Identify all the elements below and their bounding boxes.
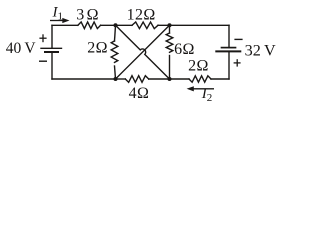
resistor R 4ohm zigzag — [125, 76, 148, 83]
battery V2 minus sign — [234, 38, 242, 40]
wire vertical 6ohm branch lower stub — [169, 56, 171, 80]
wire bottom-left — [52, 78, 116, 80]
wire node C to 4ohm — [116, 78, 126, 80]
battery V1 40V long plate (positive, top) — [41, 47, 62, 49]
svg-text:12Ω: 12Ω — [127, 6, 156, 23]
battery V2 32V short plate (negative, top) — [222, 47, 236, 49]
wire right branch lower — [228, 51, 230, 79]
resistor R 2ohm vertical zigzag — [111, 41, 118, 62]
wire vertical 6ohm branch upper stub — [169, 25, 171, 33]
resistor R 2ohm bottom zigzag — [189, 76, 211, 82]
wire diagonal node A to node D with hop over B-C — [116, 25, 170, 79]
wire top-left segment — [52, 24, 78, 26]
wire node D to 2ohm — [170, 78, 190, 80]
battery V2 plus sign — [234, 59, 241, 66]
battery V1 plus sign — [39, 34, 46, 42]
svg-text:I1: I1 — [52, 4, 64, 22]
wire vertical 2ohm branch upper stub — [115, 25, 116, 41]
svg-text:6Ω: 6Ω — [174, 41, 195, 58]
wire left branch upper — [51, 25, 53, 48]
wire node D to 4ohm — [149, 78, 170, 80]
svg-text:40 V: 40 V — [6, 40, 37, 57]
node A junction dot — [114, 23, 118, 27]
current I1 arrow — [50, 18, 70, 23]
wire node B to top-right corner — [158, 24, 229, 26]
svg-text:4Ω: 4Ω — [129, 85, 150, 102]
resistor R 6ohm vertical zigzag — [166, 33, 173, 52]
svg-text:3Ω: 3Ω — [76, 6, 99, 23]
wire vertical 2ohm branch lower stub — [115, 66, 116, 79]
resistor R 12ohm zigzag — [132, 22, 158, 29]
node D junction dot — [168, 77, 172, 81]
node C junction dot — [114, 77, 118, 81]
battery V1 40V short plate (negative, bottom) — [45, 51, 58, 53]
wire left branch lower — [51, 52, 53, 79]
wire diagonal node B to node C — [116, 25, 170, 79]
current I2 arrow — [187, 86, 214, 91]
wire bottom-right corner to 2ohm — [211, 78, 229, 80]
svg-text:32 V: 32 V — [245, 42, 276, 60]
svg-text:2Ω: 2Ω — [87, 40, 108, 57]
wire between 3ohm and node A — [101, 24, 132, 26]
svg-text:2Ω: 2Ω — [188, 58, 209, 75]
node B junction dot — [168, 23, 172, 27]
resistor R 3ohm zigzag — [78, 22, 101, 29]
wire right branch upper — [228, 25, 230, 47]
battery V2 32V long plate (positive, bottom) — [216, 50, 240, 52]
battery V1 minus sign — [39, 60, 47, 62]
